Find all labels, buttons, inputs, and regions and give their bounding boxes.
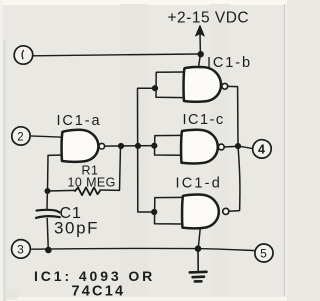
svg-text:74C14: 74C14: [72, 284, 126, 300]
svg-text:10 MEG: 10 MEG: [68, 176, 116, 190]
svg-text:IC1-c: IC1-c: [183, 112, 225, 128]
svg-text:IC1: 4093 OR: IC1: 4093 OR: [34, 268, 155, 284]
svg-text:3: 3: [17, 243, 24, 257]
svg-text:5: 5: [260, 247, 267, 261]
svg-text:IC1-a: IC1-a: [57, 113, 102, 129]
svg-text:+2-15 VDC: +2-15 VDC: [168, 10, 250, 27]
svg-text:2: 2: [17, 132, 23, 144]
svg-text:IC1-b: IC1-b: [207, 55, 252, 71]
svg-text:IC1-d: IC1-d: [176, 176, 222, 192]
svg-text:30pF: 30pF: [54, 219, 99, 238]
svg-text:4: 4: [258, 143, 265, 157]
